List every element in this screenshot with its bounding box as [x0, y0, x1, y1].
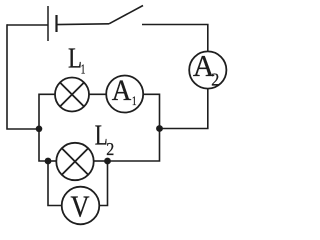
lamp L1 cross	[60, 83, 84, 107]
svg-text:2: 2	[211, 70, 219, 90]
wire node J3 to lamp L2	[48, 160, 56, 162]
ammeter A1 circle	[106, 76, 143, 113]
node J3 junction dot	[45, 158, 52, 165]
wire node J1 down to L2 branch	[39, 129, 48, 161]
svg-text:2: 2	[106, 139, 114, 159]
node J1 junction dot	[36, 126, 43, 133]
wire voltmeter right up to node J4	[99, 161, 107, 206]
svg-text:V: V	[71, 189, 91, 224]
voltmeter V circle	[62, 187, 100, 225]
ammeter A2 circle	[189, 51, 226, 88]
battery B1 short plate	[55, 15, 57, 32]
lamp L2 circle	[56, 143, 93, 180]
svg-text:1: 1	[132, 94, 137, 108]
wire A1 to L1	[89, 93, 106, 95]
wire node J2 up and left to ammeter A1	[143, 94, 159, 128]
wire battery to switch	[57, 23, 110, 26]
svg-text:1: 1	[81, 62, 86, 77]
node J4 junction dot	[104, 158, 111, 165]
wire L1 left down to node J1	[39, 94, 55, 129]
lamp L1 circle	[55, 78, 89, 112]
switch S1 blade (open)	[109, 6, 143, 24]
battery B1 long plate	[47, 6, 49, 41]
wire L2 right to node J4	[94, 160, 108, 162]
svg-text:A: A	[112, 74, 132, 107]
wire node J3 down to voltmeter V	[48, 161, 62, 206]
lamp L2 cross	[62, 148, 88, 174]
wire node J4 right and up to node J2	[108, 129, 160, 162]
wire top-left horizontal to battery	[7, 24, 48, 26]
node J2 junction dot	[156, 125, 163, 132]
wire left outer vertical and bottom to node J1	[7, 24, 39, 129]
wire A2 bottom down and left to node J2	[160, 89, 208, 129]
wire switch contact to top-right corner down to A2	[142, 25, 208, 52]
